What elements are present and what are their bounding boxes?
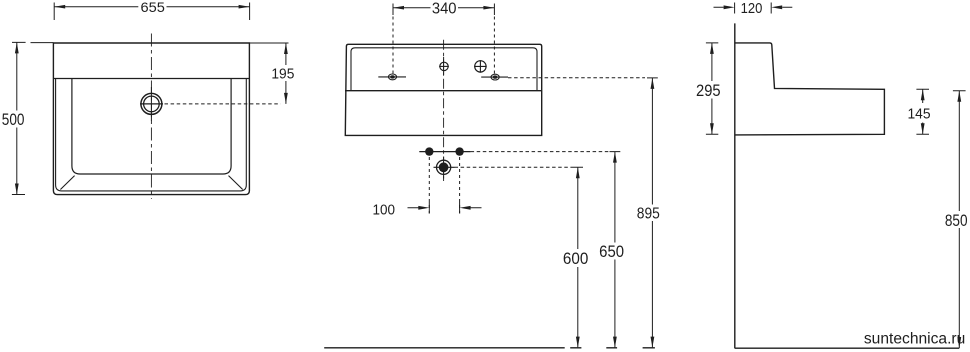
svg-text:850: 850 — [945, 211, 968, 230]
svg-text:650: 650 — [599, 242, 624, 261]
svg-text:895: 895 — [637, 205, 660, 222]
svg-text:145: 145 — [907, 105, 930, 122]
svg-text:340: 340 — [432, 1, 457, 18]
svg-text:100: 100 — [373, 203, 396, 219]
svg-text:600: 600 — [563, 249, 588, 268]
svg-text:120: 120 — [741, 0, 763, 17]
svg-text:suntechnica.ru: suntechnica.ru — [864, 331, 965, 348]
svg-text:195: 195 — [271, 66, 294, 82]
svg-text:655: 655 — [141, 0, 166, 15]
svg-text:295: 295 — [696, 82, 721, 100]
svg-text:500: 500 — [2, 111, 25, 129]
